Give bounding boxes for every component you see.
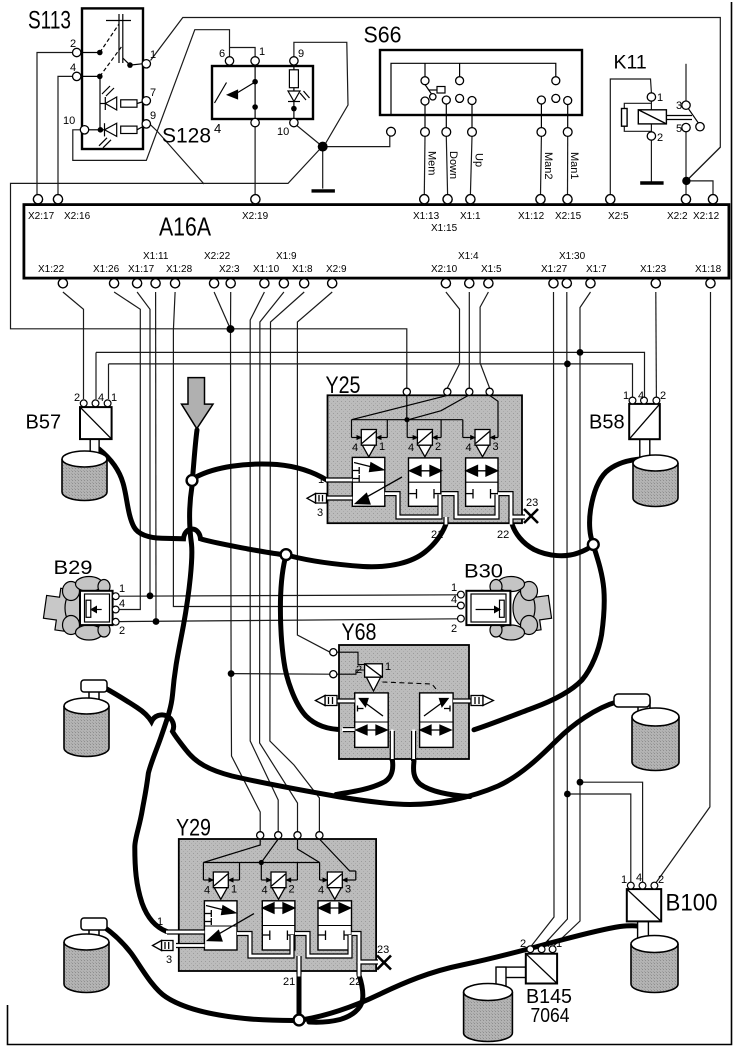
svg-text:4: 4 — [451, 594, 457, 606]
ground below S128 junction — [312, 189, 335, 192]
Y29 valve body 3 — [318, 901, 352, 950]
svg-text:4: 4 — [638, 390, 644, 402]
svg-text:X2:19: X2:19 — [242, 211, 269, 222]
svg-text:2: 2 — [70, 38, 76, 50]
svg-text:X2:16: X2:16 — [64, 211, 91, 222]
air line mid-left bellows to right-mid bellows connector — [105, 688, 618, 805]
supply arrow symbol — [182, 378, 214, 429]
svg-text:6: 6 — [219, 48, 225, 60]
svg-text:9: 9 — [150, 110, 156, 122]
node K11 junction — [682, 177, 690, 185]
wire X2:10 to Y25 pin2 — [446, 292, 460, 388]
svg-text:2: 2 — [657, 132, 663, 144]
svg-text:1: 1 — [150, 49, 156, 61]
S113 pins — [73, 48, 151, 134]
wire K11 pin1 to coil — [650, 102, 652, 111]
svg-text:X1:13: X1:13 — [413, 211, 440, 222]
wire S66 Mem to X1:13 — [423, 137, 426, 195]
node J4 — [294, 1015, 305, 1026]
Y29 valve body 1 — [204, 901, 237, 950]
S66 rotated wire labels — [426, 151, 581, 180]
node J3 — [588, 539, 599, 550]
Y25 muffler port 3 — [307, 494, 327, 504]
Y68 port pipes — [337, 701, 471, 761]
air line Y29 port22 down to J4 — [309, 975, 363, 1022]
node X1:30/B100 — [564, 791, 571, 798]
wire X1:22 to B57 pin2 — [63, 292, 84, 399]
K11 series resistor — [622, 109, 628, 127]
svg-text:2: 2 — [658, 874, 664, 886]
svg-text:22: 22 — [497, 529, 509, 541]
svg-text:X1:18: X1:18 — [695, 264, 722, 275]
wire S66 Man2 to X1:12 — [540, 137, 543, 195]
svg-text:4: 4 — [466, 442, 472, 454]
svg-text:S128: S128 — [162, 125, 211, 148]
svg-text:4: 4 — [636, 872, 642, 884]
svg-text:2: 2 — [119, 625, 125, 637]
svg-text:X2:17: X2:17 — [28, 211, 55, 222]
svg-text:7064: 7064 — [531, 1005, 570, 1027]
Y25 internal coil wiring — [352, 395, 499, 437]
B100 bellows — [631, 936, 678, 993]
wire X1:23 to B58 pin2 — [655, 292, 658, 399]
svg-text:2: 2 — [435, 441, 441, 453]
air line J4 up to Y29 port21 — [297, 975, 302, 1016]
wire S66 Down to X1:15 — [446, 137, 447, 195]
svg-text:1: 1 — [157, 916, 163, 928]
B30 linkage arm — [523, 587, 553, 632]
S113 internal LED circuit vertical — [99, 76, 101, 129]
Y29 solenoid 2 — [266, 872, 291, 899]
node X2:3/Y68 — [228, 670, 235, 677]
svg-text:9: 9 — [298, 48, 304, 60]
B57 pins — [80, 400, 111, 407]
Y68 solenoid — [365, 664, 383, 691]
svg-text:1: 1 — [621, 874, 627, 886]
svg-text:21: 21 — [431, 529, 443, 541]
S66 contact circles — [387, 77, 572, 137]
Y25 solenoid labels — [352, 441, 499, 454]
wire junction to S66 left pin — [327, 136, 390, 146]
wire sensor signal horizontal lower — [109, 364, 633, 399]
air line bottom-left bellows to J4 — [104, 927, 294, 1021]
svg-text:3: 3 — [345, 884, 351, 896]
svg-text:X1:11: X1:11 — [143, 251, 169, 262]
wire X1:28 to B30 pin4 — [173, 292, 461, 607]
wire X1:30 branch to B100 pin1 — [567, 794, 630, 882]
wire K11 junction to X2:12 — [686, 181, 713, 195]
S66 contact stems to bottom pins — [424, 105, 426, 128]
wire sensor supply horizontal upper — [96, 352, 645, 398]
Y68 internal wiring — [337, 652, 436, 689]
svg-text:1: 1 — [119, 583, 125, 595]
ground K11 — [640, 181, 663, 184]
air line J2 to Y25 port21 — [291, 525, 446, 567]
svg-text:X2:12: X2:12 — [693, 211, 720, 222]
B145 bellows — [464, 984, 513, 1042]
wire X2:22 to dot — [214, 292, 230, 329]
node X1:7/B100 — [577, 779, 584, 786]
wire upper horizontal to B57 pin4 — [95, 352, 97, 399]
svg-text:B100: B100 — [666, 890, 718, 917]
S66 Mem lever and key — [425, 85, 432, 95]
wire S113 pin9 to ground line — [150, 125, 204, 185]
air line arrow to J1 — [193, 430, 198, 478]
K11 pins — [647, 93, 704, 140]
svg-text:21: 21 — [283, 976, 295, 988]
wire S128 pin1 strap — [230, 48, 256, 57]
svg-text:4: 4 — [262, 885, 268, 897]
Y29 top pins — [257, 832, 323, 839]
B57 box — [80, 407, 112, 439]
wire X1:4 to Y25 pin3 — [468, 292, 470, 388]
svg-text:B30: B30 — [464, 560, 503, 582]
wire K11 pin2 to ground — [650, 141, 652, 183]
box S66 — [380, 50, 582, 115]
S128 internal LED branch — [288, 65, 310, 118]
wire S113 pin2 to X2:17 — [37, 53, 73, 195]
svg-text:Y29: Y29 — [176, 815, 211, 842]
wire K11 coil to pin2 — [650, 124, 652, 132]
svg-text:2: 2 — [74, 392, 80, 404]
wire K11 pin5 to junction to X2:2 — [685, 132, 687, 195]
wire X1:7 branch to B100 pin4 — [580, 782, 643, 882]
B58 bellows — [633, 455, 678, 507]
svg-text:X1:17: X1:17 — [128, 264, 155, 275]
svg-text:K11: K11 — [614, 52, 647, 74]
air line Y68 bottom-left to sweep — [336, 761, 393, 795]
svg-text:Up: Up — [473, 153, 485, 167]
wire X1:11 to B29 pin2 line — [155, 292, 157, 622]
svg-text:22: 22 — [349, 976, 361, 988]
Y25 solenoid 1 — [357, 430, 382, 457]
Y68 left valve air stub — [342, 727, 355, 732]
Y68 muffler left — [315, 696, 337, 706]
Y29 port labels — [157, 916, 389, 988]
svg-text:2: 2 — [289, 884, 295, 896]
svg-text:4: 4 — [204, 885, 210, 897]
air line Y68 bottom-right to sweep — [414, 761, 470, 797]
svg-text:X1:23: X1:23 — [640, 264, 667, 275]
wire X1:8 to Y29 pin4 — [270, 292, 320, 832]
S113 diode row lower (pin 9) — [99, 123, 142, 148]
Y25 valve body 2 — [409, 458, 441, 506]
wire S113 pin10 to S128 pin6 — [73, 30, 230, 161]
Y68 valve body right — [420, 693, 454, 748]
svg-text:X1:22: X1:22 — [38, 264, 65, 275]
A16A pin labels top row — [28, 211, 720, 234]
node J2 — [281, 549, 292, 560]
right-mid bellows with connector — [614, 694, 679, 771]
wire S66 Up to X1:1 — [470, 137, 472, 195]
svg-text:Y68: Y68 — [342, 619, 377, 646]
B30 linkage lumps — [513, 590, 535, 626]
box S113 — [82, 8, 143, 149]
wire lower horizontal to B57 pin1 — [108, 364, 110, 399]
wire S128 pin4 to X2:19 — [254, 127, 256, 195]
B29 sensor box — [80, 591, 113, 625]
node S128 ground junction — [318, 142, 328, 152]
bottom-left bellows with elbow — [64, 918, 109, 993]
svg-text:X1:7: X1:7 — [586, 264, 607, 275]
Y29 valve body 2 — [262, 901, 295, 950]
air line B58 hose to J3 — [590, 459, 641, 542]
wire S113 pin1 to K11 contact top-right — [151, 18, 721, 178]
svg-text:10: 10 — [63, 115, 75, 127]
Y25 port labels — [317, 474, 538, 541]
svg-text:4: 4 — [408, 442, 414, 454]
B145 elbow to bellows — [498, 967, 526, 977]
svg-text:5: 5 — [676, 123, 682, 135]
svg-text:Man1: Man1 — [568, 152, 580, 180]
S128 internal switch — [215, 65, 256, 118]
Y29 muffler port 3 — [153, 941, 174, 951]
wire K11 resistor bracket top — [624, 103, 651, 108]
svg-text:X2:22: X2:22 — [204, 251, 231, 262]
mid-left bellows with elbow — [64, 680, 109, 757]
svg-text:7: 7 — [150, 87, 156, 99]
K11 coil — [622, 109, 667, 127]
Y25 port 23 X symbol — [524, 509, 538, 523]
Y25 solenoid 2 — [413, 430, 438, 457]
Y25 valve body 1 — [352, 457, 385, 506]
svg-text:3: 3 — [317, 507, 323, 519]
wire X2:9 to Y68 upper pin — [297, 292, 332, 652]
svg-text:4: 4 — [70, 62, 76, 74]
svg-text:1: 1 — [231, 884, 237, 896]
box A16A — [24, 205, 729, 279]
wire X1:26 to B29 pin4 — [114, 292, 140, 610]
air line J1 down to Y29 port1 — [135, 486, 192, 932]
wire S128 pin9 loop to junction — [294, 42, 348, 143]
svg-text:4: 4 — [98, 392, 104, 404]
svg-text:X2:5: X2:5 — [608, 211, 629, 222]
svg-text:X2:3: X2:3 — [219, 264, 240, 275]
svg-text:X2:10: X2:10 — [431, 264, 458, 275]
S113 switch mechanism — [81, 14, 142, 130]
B30 sensor box — [466, 591, 510, 625]
svg-text:10: 10 — [277, 126, 289, 138]
svg-text:X1:8: X1:8 — [292, 264, 313, 275]
Y25 valve body 3 — [466, 458, 498, 506]
svg-text:X1:30: X1:30 — [559, 251, 586, 262]
wire X1:17 to B29 pin1 line — [137, 292, 150, 596]
wire B29 pin1 to B30 pin1 — [119, 595, 457, 596]
svg-text:X2:15: X2:15 — [555, 211, 582, 222]
wire ground net to Y25 pin1 — [11, 150, 407, 389]
svg-text:4: 4 — [544, 938, 550, 950]
svg-text:X1:28: X1:28 — [166, 264, 193, 275]
svg-text:X2:9: X2:9 — [326, 264, 347, 275]
wire X1:5 to Y25 pin4 — [480, 292, 490, 388]
wire junction to ground symbol — [322, 150, 324, 189]
Y25 solenoid 3 — [470, 430, 495, 457]
svg-text:B58: B58 — [589, 412, 625, 434]
svg-text:23: 23 — [377, 944, 389, 956]
svg-text:Man2: Man2 — [542, 152, 554, 180]
wire K11 junction diagonal up — [686, 147, 720, 181]
svg-text:X1:15: X1:15 — [431, 223, 458, 234]
svg-text:23: 23 — [526, 497, 538, 509]
B29 linkage arm — [42, 587, 73, 632]
svg-text:4: 4 — [119, 598, 125, 610]
air line B57 hose to J2 — [99, 449, 282, 555]
svg-text:Down: Down — [447, 151, 459, 179]
svg-text:4: 4 — [318, 885, 324, 897]
Y25 top pin circles — [403, 388, 493, 395]
svg-text:1: 1 — [657, 92, 663, 104]
Y68 muffler right — [471, 696, 493, 706]
Y29 solenoid 3 — [323, 872, 348, 899]
svg-text:1: 1 — [623, 390, 629, 402]
node X1:11/B29 pin2 — [153, 618, 160, 625]
wire X1:7 to B145 pin1 — [554, 292, 591, 946]
wire K11 resistor bracket bottom — [624, 126, 651, 131]
svg-text:Mem: Mem — [426, 151, 438, 175]
air line J1 to Y25 port1 — [196, 464, 328, 480]
svg-text:B29: B29 — [54, 557, 93, 579]
A16A pin labels bottom rows — [38, 251, 722, 275]
svg-text:X1:5: X1:5 — [481, 264, 502, 275]
svg-text:4: 4 — [352, 442, 358, 454]
node X2:22/X2:3 — [227, 325, 235, 333]
svg-text:B57: B57 — [26, 412, 62, 434]
box S128 — [212, 66, 313, 119]
svg-text:2: 2 — [451, 623, 457, 635]
wire S128 pin10 to junction — [297, 126, 320, 145]
B29 pins — [112, 593, 119, 625]
Y29 port 23 X symbol — [377, 956, 391, 970]
svg-text:X1:4: X1:4 — [458, 251, 479, 262]
svg-text:X1:12: X1:12 — [518, 211, 545, 222]
A16A top pin circles — [33, 195, 717, 204]
svg-text:X1:1: X1:1 — [460, 211, 481, 222]
B57 stem — [90, 439, 99, 463]
Y29 solenoid 1 — [209, 872, 234, 899]
svg-text:S66: S66 — [364, 21, 402, 47]
svg-text:3: 3 — [166, 954, 172, 966]
wire S113 pin4 to X2:16 — [58, 76, 73, 194]
air line Y25 port22 to J3 — [512, 525, 592, 556]
svg-text:X1:27: X1:27 — [541, 264, 568, 275]
wire B29 pin2 to B30 pin2 — [119, 619, 457, 622]
svg-text:A16A: A16A — [159, 212, 212, 242]
svg-text:1: 1 — [556, 938, 562, 950]
K11 contact arm and actuation link — [666, 109, 698, 123]
wire X1:30 to B145 pin4 — [543, 292, 568, 946]
svg-text:X1:9: X1:9 — [276, 251, 297, 262]
S128 pins — [225, 57, 298, 127]
S113 diode row upper (pin 7) — [100, 86, 142, 110]
svg-text:X2:2: X2:2 — [667, 211, 688, 222]
B58 pins — [629, 397, 660, 404]
svg-text:1: 1 — [318, 474, 324, 486]
air line J4 to B100 stem — [304, 926, 642, 1020]
Y29 internal coil wiring — [203, 839, 355, 880]
B29 linkage lumps — [65, 590, 87, 626]
wire X1:18 to B100 pin2 — [656, 292, 711, 883]
Y68 valve body left — [355, 693, 389, 748]
svg-text:1: 1 — [451, 582, 457, 594]
S66 internal rail — [391, 63, 568, 127]
svg-text:1: 1 — [111, 392, 117, 404]
node X1:17/B29 pin1 — [147, 592, 154, 599]
wire K11 coil loop to X2:5 — [610, 79, 651, 195]
svg-text:S113: S113 — [28, 7, 71, 35]
svg-text:2: 2 — [660, 390, 666, 402]
wire K11 contact stub — [685, 64, 687, 101]
svg-text:1: 1 — [259, 46, 265, 58]
air line J3 down to Y68 right port — [474, 549, 604, 730]
wire Y68 lower pin feed — [231, 673, 330, 676]
svg-text:3: 3 — [493, 441, 499, 453]
A16A bottom pin circles — [58, 279, 715, 288]
Y25 white pipes — [327, 480, 526, 523]
Y29 white pipes — [167, 932, 378, 975]
B30 pins — [458, 591, 465, 622]
svg-text:X1:26: X1:26 — [93, 264, 120, 275]
wire X1:27 to B145 pin2 — [532, 292, 555, 946]
svg-text:1: 1 — [379, 441, 385, 453]
svg-text:3: 3 — [676, 100, 682, 112]
wire X1:10 to Y29 pin2 — [250, 292, 278, 832]
S66 below-box pins — [387, 127, 396, 136]
node X1:30 on lower horizontal — [564, 361, 571, 368]
node X1:7 on upper horizontal — [577, 349, 584, 356]
Y68 pins — [330, 649, 337, 678]
air line J2 down to Y68 left port — [280, 559, 343, 730]
wire X1:9 to Y29 pin3 — [260, 292, 298, 832]
svg-text:2: 2 — [520, 938, 526, 950]
B57 bellows — [62, 451, 107, 501]
svg-text:X1:10: X1:10 — [253, 264, 280, 275]
wire X2:3 down to Y29 pin1 — [231, 292, 261, 832]
svg-text:4: 4 — [214, 121, 221, 136]
air line junction circles — [187, 475, 599, 1025]
wire S66 Man1 to X2:15 — [567, 137, 569, 195]
node J1 — [187, 475, 198, 486]
svg-text:1: 1 — [385, 661, 391, 673]
